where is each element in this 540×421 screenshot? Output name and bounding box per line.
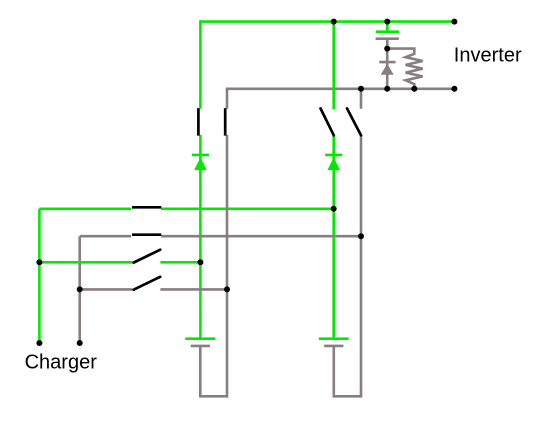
svg-text:Charger: Charger	[25, 352, 98, 374]
svg-text:Inverter: Inverter	[454, 44, 522, 66]
